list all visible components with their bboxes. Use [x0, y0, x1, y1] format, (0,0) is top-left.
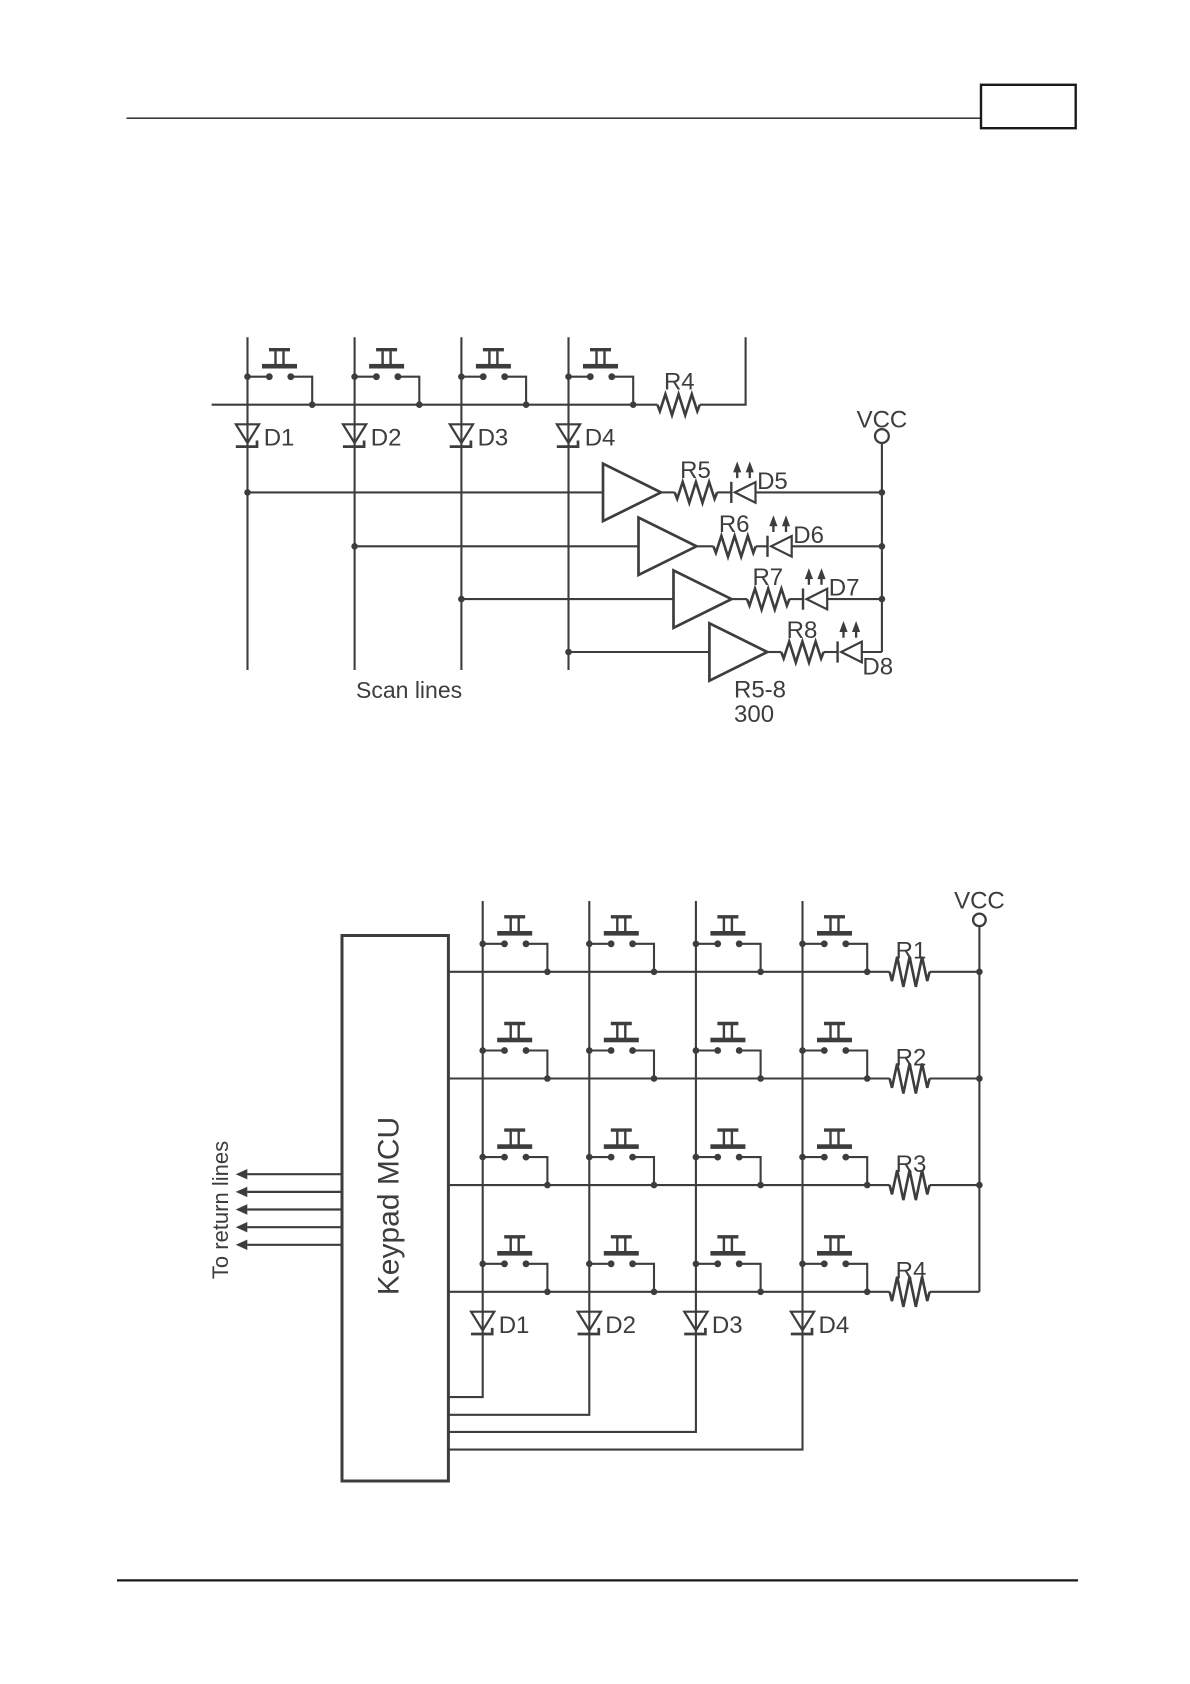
wire: LED D8 anode to VCC rail	[862, 651, 882, 653]
svg-text:R4: R4	[664, 369, 695, 396]
wire: scan line 1 tap to buffer 1 input	[248, 491, 604, 493]
push-button switch row2 col3	[693, 1024, 764, 1082]
wire: keypad column 1 (vertical + return run)	[448, 901, 482, 1397]
buffer U1	[603, 464, 661, 521]
svg-text:R5: R5	[680, 457, 711, 484]
node: junction VCC rail / LED D7	[879, 596, 886, 603]
push-button switch S3	[458, 350, 529, 408]
wire: buffer U3 output to R7	[732, 598, 748, 600]
svg-text:D6: D6	[793, 522, 824, 549]
wire: scan line 3 tap to buffer 3 input	[461, 598, 673, 600]
wire: R4 to VCC rail	[930, 1291, 980, 1293]
node: junction VCC rail / row 3	[976, 1182, 983, 1189]
diode D2	[343, 424, 402, 451]
push-button switch row3 col3	[693, 1130, 764, 1188]
push-button switch row3 col2	[586, 1130, 657, 1188]
node: junction VCC rail / row 2	[976, 1075, 983, 1082]
diode D1	[236, 424, 295, 451]
node: junction scan line 3 / tap	[458, 596, 465, 603]
wire: buffer U2 output to R6	[697, 545, 714, 547]
push-button switch row2 col4	[799, 1024, 870, 1082]
push-button switch row4 col3	[693, 1237, 764, 1295]
wire: scan line 2 (vertical)	[354, 337, 356, 670]
wire: VCC rail (vertical)	[978, 926, 980, 1292]
wire: return line 4 arrow	[236, 1222, 342, 1232]
buffer U3	[674, 570, 732, 627]
wire: scan line 3 (vertical)	[460, 337, 462, 670]
footer rule	[117, 1579, 1078, 1581]
wire: keypad row 1	[448, 971, 889, 973]
svg-text:R2: R2	[896, 1044, 927, 1071]
push-button switch row4 col1	[479, 1237, 550, 1295]
diode D3	[450, 424, 509, 451]
svg-text:D8: D8	[862, 653, 893, 680]
resistor R4	[657, 369, 699, 416]
power VCC (keypad circuit)	[954, 888, 1005, 927]
diode D1 (return)	[471, 1312, 529, 1339]
wire: R8 to LED D8	[824, 651, 838, 653]
wire: R5 to LED D5	[717, 491, 731, 493]
diode D4 (return)	[791, 1312, 849, 1339]
resistor R8	[781, 617, 823, 663]
push-button switch S4	[565, 350, 636, 408]
buffer U2	[639, 518, 697, 575]
block: Keypad MCU	[342, 936, 448, 1482]
wire: keypad row 4	[448, 1291, 889, 1293]
wire: R3 to VCC rail	[930, 1184, 980, 1186]
push-button switch row3 col1	[479, 1130, 550, 1188]
svg-text:D2: D2	[605, 1312, 636, 1339]
wire: buffer U1 output to R5	[661, 491, 675, 493]
svg-text:R7: R7	[752, 564, 783, 591]
header rule	[127, 117, 982, 119]
wire: return line 5 arrow	[236, 1240, 342, 1250]
node: junction VCC rail / row 1	[976, 969, 983, 976]
push-button switch row4 col2	[586, 1237, 657, 1295]
svg-text:R4: R4	[896, 1258, 927, 1285]
wire: R6 to LED D6	[756, 545, 768, 547]
node: junction VCC rail / LED D5	[879, 489, 886, 496]
svg-text:D1: D1	[264, 424, 295, 451]
svg-text:D3: D3	[712, 1312, 743, 1339]
wire: R7 to LED D7	[789, 598, 803, 600]
buffer U4	[709, 623, 767, 680]
svg-text:R3: R3	[896, 1151, 927, 1178]
resistor R5	[675, 457, 717, 503]
svg-text:R5-8: R5-8	[734, 676, 786, 703]
wire: scan line 4 (vertical)	[567, 337, 569, 670]
push-button switch row3 col4	[799, 1130, 870, 1188]
svg-text:D5: D5	[757, 468, 788, 495]
wire: return line 1 arrow	[236, 1169, 342, 1179]
push-button switch row1 col2	[586, 917, 657, 975]
svg-text:R8: R8	[787, 617, 818, 644]
wire: scan line 2 tap to buffer 2 input	[355, 545, 639, 547]
page number box	[981, 85, 1076, 128]
LED D5	[731, 461, 787, 503]
push-button switch row2 col1	[479, 1024, 550, 1082]
svg-text:D3: D3	[478, 424, 509, 451]
wire: scan line bus (keypad row)	[212, 404, 658, 406]
svg-text:VCC: VCC	[857, 407, 908, 434]
wire: keypad column 3 (vertical + return run)	[448, 901, 696, 1432]
resistor R2	[890, 1044, 930, 1093]
push-button switch S1	[244, 350, 315, 408]
power VCC (scan circuit)	[857, 407, 908, 443]
svg-text:R6: R6	[719, 511, 750, 538]
push-button switch row4 col4	[799, 1237, 870, 1295]
svg-text:VCC: VCC	[954, 888, 1005, 915]
push-button switch row1 col4	[799, 917, 870, 975]
wire: keypad row 3	[448, 1184, 889, 1186]
svg-text:D1: D1	[499, 1312, 530, 1339]
svg-text:D2: D2	[371, 424, 402, 451]
wire: VCC rail (vertical)	[881, 443, 883, 652]
wire: return line 3 arrow	[236, 1204, 342, 1214]
resistor R1	[890, 938, 930, 987]
svg-text:To return lines: To return lines	[208, 1141, 233, 1279]
node: junction VCC rail / LED D6	[879, 543, 886, 550]
LED D8	[838, 621, 893, 680]
wire: LED D7 anode to VCC rail	[827, 598, 882, 600]
push-button switch row2 col2	[586, 1024, 657, 1082]
wire: keypad column 2 (vertical + return run)	[448, 901, 589, 1415]
resistor R4	[890, 1258, 930, 1307]
wire: scan line 1 (vertical)	[246, 337, 248, 670]
diode D4	[557, 424, 616, 451]
svg-text:Keypad MCU: Keypad MCU	[373, 1117, 406, 1295]
svg-text:R1: R1	[896, 938, 927, 965]
value label: R5-8 300	[734, 676, 786, 728]
svg-text:D7: D7	[829, 575, 860, 602]
push-button switch S2	[351, 350, 422, 408]
wire: keypad row 2	[448, 1077, 889, 1079]
svg-text:Scan lines: Scan lines	[356, 677, 462, 703]
diode D3 (return)	[684, 1312, 742, 1339]
wire: R1 to VCC rail	[930, 971, 980, 973]
node: junction scan line 1 / tap	[244, 489, 251, 496]
diode D2 (return)	[578, 1312, 636, 1339]
wire: LED D5 anode to VCC rail	[756, 491, 882, 493]
resistor R7	[747, 564, 789, 610]
resistor R6	[713, 511, 755, 557]
wire: buffer U4 output to R8	[767, 651, 781, 653]
resistor R3	[890, 1151, 930, 1200]
node: junction scan line 2 / tap	[351, 543, 358, 550]
wire: R2 to VCC rail	[930, 1077, 980, 1079]
wire: R4 to pull-up branch	[700, 337, 746, 404]
LED D7	[803, 568, 859, 610]
node: junction scan line 4 / tap	[565, 649, 572, 656]
LED D6	[768, 515, 824, 557]
svg-text:D4: D4	[585, 424, 616, 451]
svg-text:D4: D4	[819, 1312, 850, 1339]
wire: keypad column 4 (vertical + return run)	[448, 901, 802, 1450]
wire: LED D6 anode to VCC rail	[792, 545, 882, 547]
push-button switch row1 col1	[479, 917, 550, 975]
wire: scan line 4 tap to buffer 4 input	[569, 651, 710, 653]
push-button switch row1 col3	[693, 917, 764, 975]
svg-text:300: 300	[734, 701, 774, 728]
wire: return line 2 arrow	[236, 1187, 342, 1197]
